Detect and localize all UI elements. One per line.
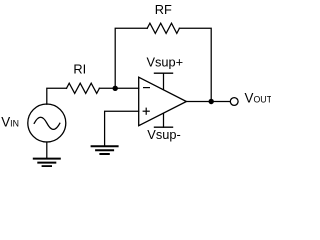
svg-text:RI: RI	[73, 62, 86, 77]
op-amp inverting input marker (-)	[144, 87, 150, 89]
svg-text:VOUT: VOUT	[245, 91, 272, 106]
wire: VIN source bottom to ground	[46, 142, 48, 158]
ground (at non-inverting input)	[92, 146, 118, 154]
svg-text:RF: RF	[155, 2, 172, 17]
ground (below VIN source)	[34, 159, 60, 167]
svg-text:Vsup+: Vsup+	[146, 54, 183, 69]
wire: non-inverting input to ground	[105, 111, 139, 146]
terminal VOUT (open circle)	[230, 98, 238, 106]
wire: RF to feedback right leg down to output node	[179, 28, 211, 101]
wire: RI to op-amp inverting input	[99, 87, 138, 89]
terminal Vsup-	[155, 113, 173, 127]
svg-text:Vsup-: Vsup-	[147, 127, 180, 142]
resistor RI	[67, 83, 100, 93]
wire: op-amp output to VOUT terminal	[186, 101, 230, 103]
wire: VIN source top to RI	[47, 88, 67, 104]
op-amp non-inverting input marker (+)	[143, 108, 149, 114]
source VIN (AC sine source)	[28, 104, 66, 142]
resistor RF	[147, 23, 179, 33]
svg-text:VIN: VIN	[1, 114, 19, 129]
node: output junction	[209, 99, 214, 104]
terminal Vsup+	[155, 73, 173, 89]
node: inverting input junction	[113, 86, 118, 91]
wire: feedback left leg (inverting node up to RF)	[115, 28, 147, 88]
op-amp U1	[139, 77, 187, 126]
